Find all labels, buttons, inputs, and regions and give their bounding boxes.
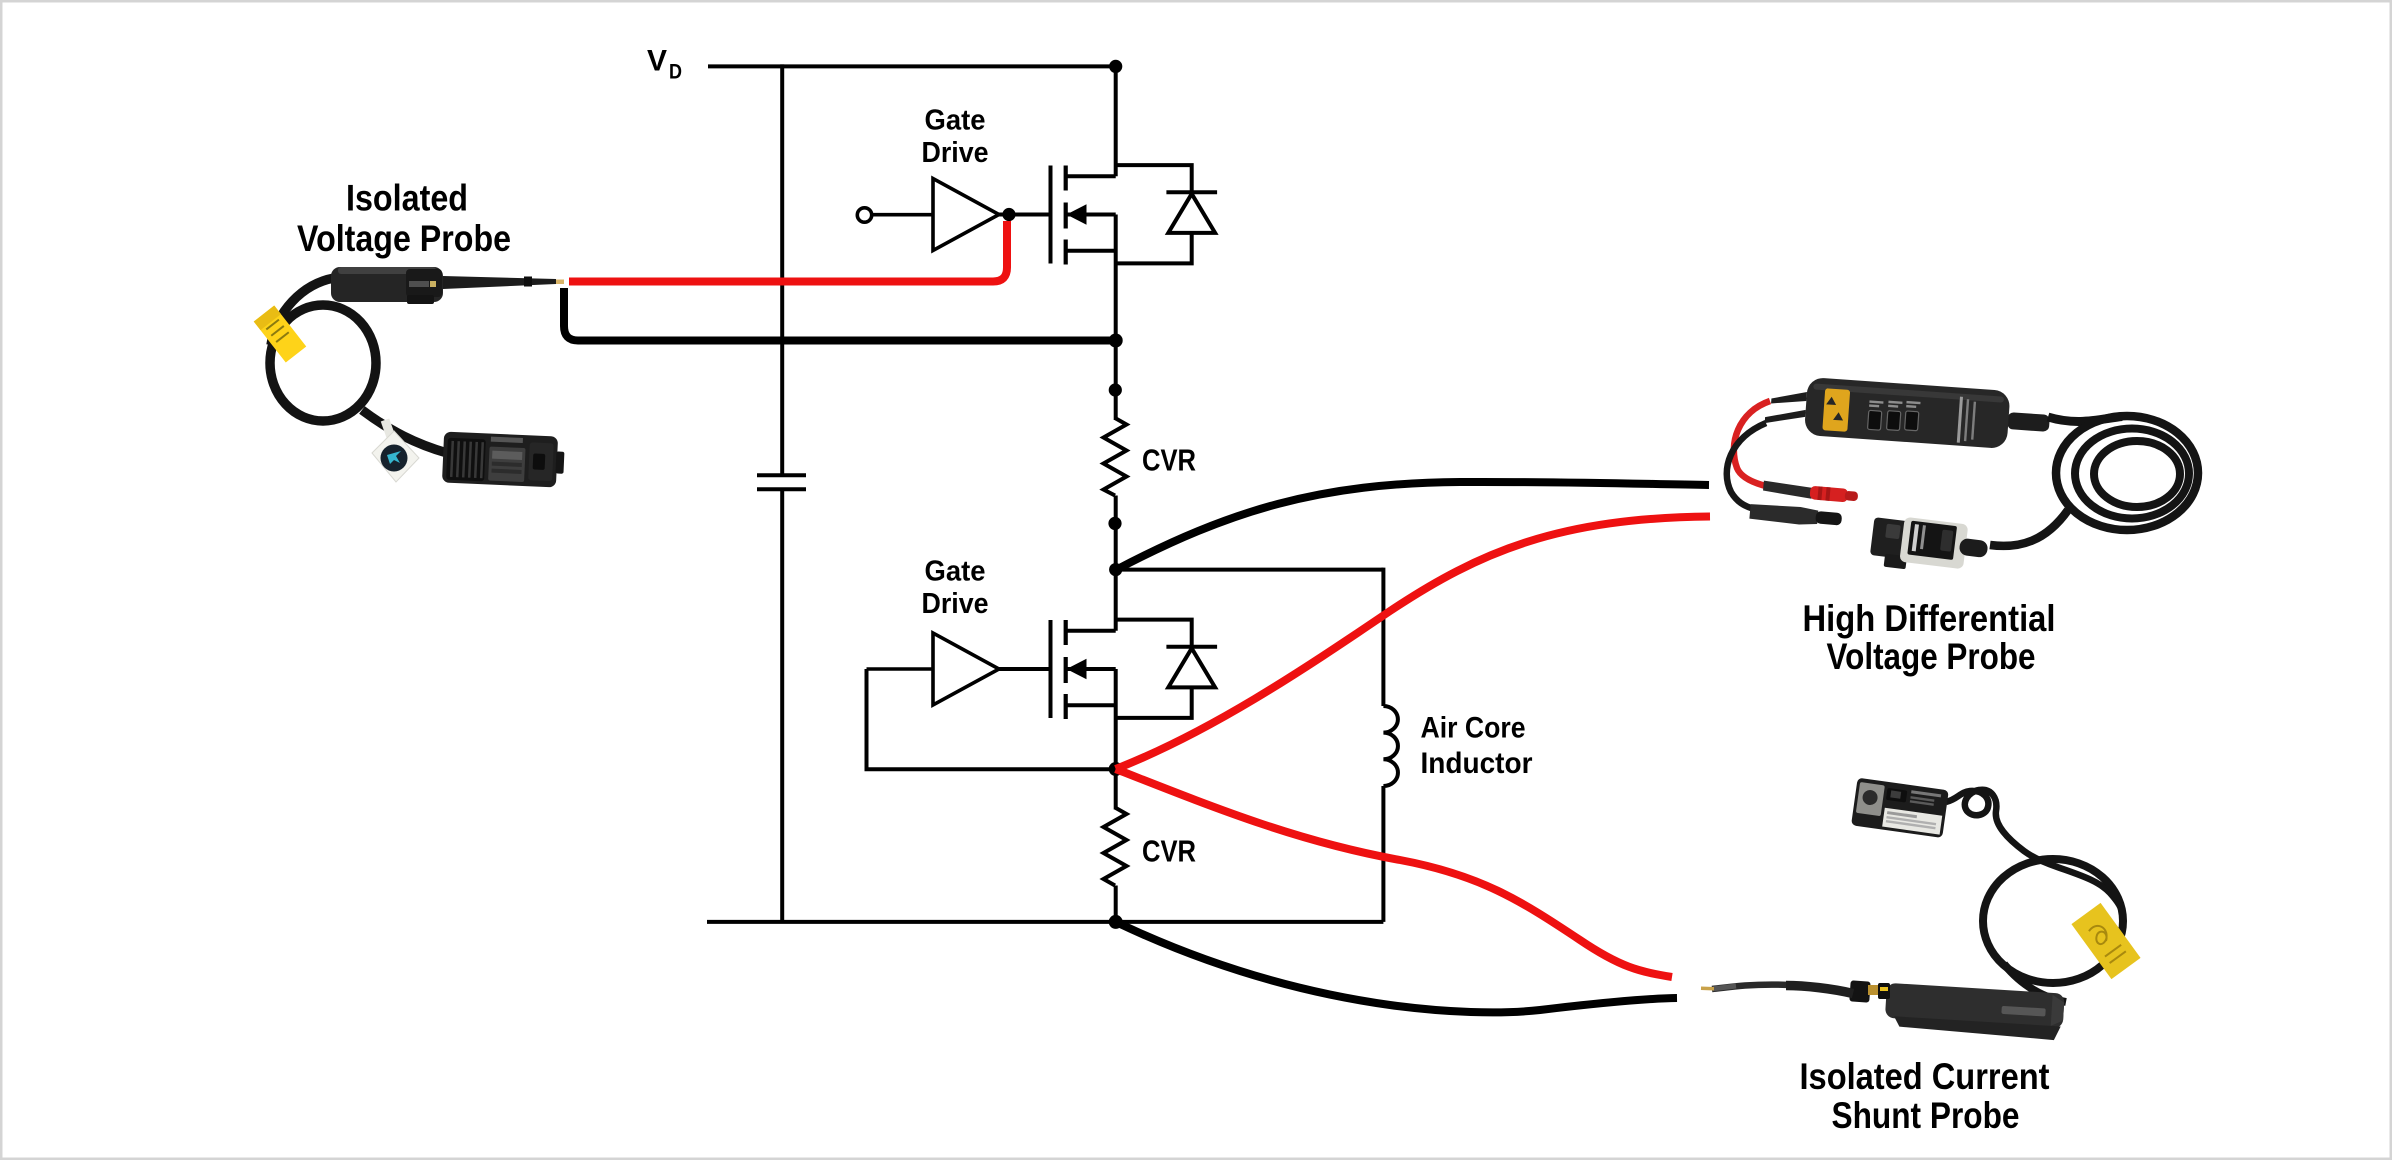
isolated voltage probe photo: white logo tag: [372, 420, 419, 482]
wire red to shunt probe: [1116, 769, 1672, 977]
svg-text:Drive: Drive: [922, 588, 989, 620]
isolated voltage probe photo: probe body: [331, 267, 564, 304]
svg-text:Drive: Drive: [922, 137, 989, 169]
high differential voltage probe photo: main body: [1764, 374, 2051, 452]
wire left bus vertical: [780, 64, 784, 922]
svg-text:Voltage Probe: Voltage Probe: [1827, 636, 2036, 677]
label high differential voltage probe: [1803, 598, 2056, 677]
resistor CVR 2: [1104, 808, 1127, 886]
input terminal circle gate drive 1: [857, 208, 871, 222]
high differential voltage probe photo: tekvpi connector box: [1869, 513, 1990, 579]
svg-text:CVR: CVR: [1142, 833, 1196, 868]
isolated voltage probe photo: controller box: [442, 432, 565, 488]
diode D1 body diode: [1116, 165, 1217, 263]
isolated current shunt probe photo: output cable and loop: [1946, 790, 2123, 1002]
high differential voltage probe photo: red banana plug: [1763, 481, 1859, 504]
isolated current shunt probe photo: tip connector: [1849, 980, 1890, 1002]
isolated voltage probe photo: yellow tag: [254, 306, 307, 363]
transistor Q1 high-side MOSFET: [1051, 64, 1116, 420]
node dot gate 1: [1002, 208, 1015, 221]
svg-text:CVR: CVR: [1142, 442, 1196, 477]
transistor Q2 low-side MOSFET: [1051, 570, 1116, 810]
op-amp buffer U1 gate driver: [933, 179, 999, 251]
node dot switch node: [1109, 762, 1123, 776]
label isolated voltage probe: [297, 178, 511, 260]
node dot top rail: [1109, 60, 1122, 73]
node dot bottom rail: [1109, 915, 1123, 929]
high differential voltage probe photo: black input lead: [1727, 423, 1766, 509]
svg-text:V: V: [647, 45, 667, 78]
node dot above CVR 1: [1109, 383, 1122, 396]
isolated current shunt probe photo: tekvpi box: [1851, 778, 1949, 838]
diode D2 body diode: [1116, 620, 1217, 718]
isolated current shunt probe photo: shunt body: [1884, 983, 2065, 1041]
node dot below CVR 1: [1108, 517, 1121, 530]
svg-text:D: D: [669, 61, 682, 84]
resistor CVR 1: [1104, 418, 1127, 496]
label gate drive 1: [922, 104, 989, 169]
capacitor bus cap: [757, 475, 806, 489]
op-amp buffer U2 gate driver: [933, 633, 999, 705]
svg-text:Isolated Current: Isolated Current: [1800, 1056, 2050, 1097]
label gate drive 2: [922, 555, 989, 620]
isolated current shunt probe photo: neck and pin: [1701, 985, 1853, 994]
high differential voltage probe photo: red input lead: [1734, 401, 1815, 493]
svg-text:Voltage Probe: Voltage Probe: [297, 218, 511, 259]
inductor L air core: [1383, 706, 1398, 786]
wire VD top rail: [708, 64, 1118, 68]
wire red sense isolated voltage probe: [569, 221, 1007, 282]
high differential voltage probe photo: output cable coil: [1990, 416, 2198, 546]
wire black to shunt probe: [1116, 922, 1677, 1012]
node dot source Q1 / black sense junction: [1109, 334, 1123, 348]
wire black sense isolated voltage probe: [564, 288, 1112, 341]
wire buffer 2 output to gate Q2: [999, 667, 1051, 671]
wire load box right lower: [1381, 786, 1385, 922]
label isolated current shunt probe: [1800, 1056, 2050, 1136]
wire input to buffer 1: [872, 213, 933, 217]
svg-text:Shunt Probe: Shunt Probe: [1832, 1095, 2020, 1136]
isolated current shunt probe photo: yellow tag: [2071, 903, 2140, 979]
wire load box top: [1116, 568, 1384, 572]
wire kelvin feedback loop gate drive 2: [867, 669, 1116, 769]
svg-text:Gate: Gate: [925, 104, 986, 136]
wire load box right upper: [1381, 568, 1385, 706]
svg-text:Inductor: Inductor: [1421, 747, 1533, 780]
wire bottom rail: [707, 920, 1383, 924]
node dot mid node: [1109, 563, 1122, 576]
wire CVR2 to bottom rail: [1114, 886, 1118, 922]
wire red to high differential probe: [1116, 517, 1710, 770]
svg-text:Gate: Gate: [925, 555, 986, 587]
svg-text:Air Core: Air Core: [1421, 712, 1526, 745]
svg-text:High Differential: High Differential: [1803, 598, 2056, 639]
wire buffer 1 output to gate Q1: [999, 213, 1051, 217]
label air core inductor: [1421, 712, 1533, 780]
isolated voltage probe photo: cable loop: [270, 278, 447, 453]
high differential voltage probe photo: black banana plug: [1749, 503, 1842, 528]
wire CVR1 to mid node: [1114, 496, 1118, 570]
wire input to buffer 2: [867, 667, 934, 671]
wire black to high differential probe: [1116, 482, 1709, 570]
svg-text:Isolated: Isolated: [346, 178, 468, 219]
node VD label: [647, 45, 682, 84]
